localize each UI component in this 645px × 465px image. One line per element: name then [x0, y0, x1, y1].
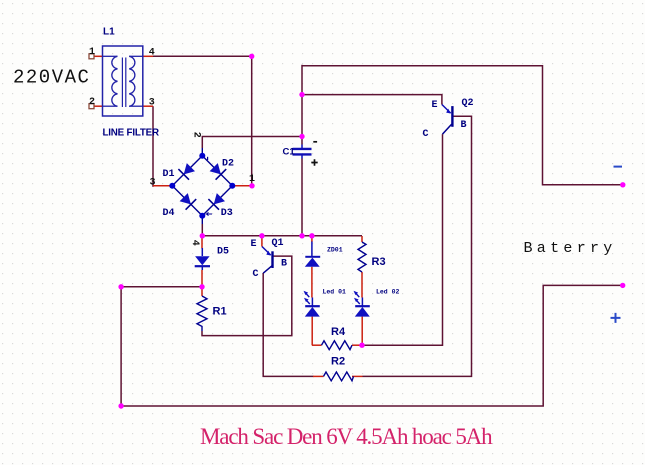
svg-text:R4: R4 [331, 326, 346, 338]
wire Led01 bottom lead [311, 317, 313, 346]
wire pin4 stub [143, 55, 153, 57]
wire R2 left lead [313, 375, 324, 377]
junction Q2 emitter branch [299, 92, 304, 97]
diode D4 [180, 193, 197, 210]
wire pin2 stub [94, 105, 103, 107]
svg-text:Baterry: Baterry [524, 240, 617, 257]
wire top right run to battery minus [302, 66, 623, 185]
wire ZD01 top lead [311, 236, 313, 242]
svg-text:C1: C1 [283, 146, 296, 157]
wire R4 left lead [312, 344, 322, 346]
wire D5 top lead [201, 236, 203, 249]
svg-text:L1: L1 [103, 27, 115, 38]
pin square 2 [89, 104, 94, 109]
svg-text:Q1: Q1 [272, 238, 284, 249]
svg-text:1: 1 [249, 174, 255, 185]
wire pin3 stub [143, 105, 153, 107]
diode D3 [208, 193, 225, 210]
svg-text:1: 1 [89, 47, 95, 58]
transistor Q2 [442, 105, 453, 135]
svg-text:D4: D4 [163, 208, 175, 219]
wire C1 vertical upper [301, 65, 303, 145]
bridge pin 2 tick mark [207, 157, 209, 160]
node bridge bottom pin 4 [199, 213, 205, 219]
bridge pin 4 arrow mark [207, 212, 213, 215]
wire ZD01 to Led01 [311, 267, 313, 298]
wire pin4 to corner [153, 55, 252, 57]
junction ZD01 on rail [309, 233, 314, 238]
resistor R4 [322, 341, 353, 350]
resistor R1 [197, 296, 207, 331]
wire bridge right stub [232, 185, 252, 187]
junction left riser bottom [118, 403, 123, 408]
junction D5 cathode node [199, 284, 204, 289]
svg-text:ZD01: ZD01 [327, 246, 343, 253]
LED Led01 [304, 291, 320, 317]
bridge rectifier arms [172, 148, 232, 224]
node bridge top pin 2 [199, 153, 205, 159]
node bridge right pin 1 [229, 183, 235, 189]
wire D5 bottom lead [201, 270, 203, 287]
diode D5 [195, 248, 210, 270]
svg-text:B: B [461, 120, 467, 131]
svg-text:D3: D3 [221, 208, 233, 219]
svg-text:3: 3 [150, 177, 156, 188]
transistor Q1 [262, 247, 273, 274]
junction Led02 R4 node [359, 343, 364, 348]
svg-text:B: B [281, 258, 287, 269]
wire R3 top lead [361, 236, 363, 242]
junction Q1 emitter on rail [259, 233, 264, 238]
junction bridge right [249, 183, 254, 188]
wire R1 top lead [201, 287, 203, 296]
svg-text:3: 3 [149, 97, 155, 108]
wire battery plus run, bottom rail, left riser [121, 285, 623, 406]
resistor R2 [324, 372, 354, 381]
capacitor C1 [293, 145, 312, 159]
wire pin1 stub [94, 55, 103, 57]
node battery plus terminal [620, 283, 625, 288]
red component stubs [94, 56, 363, 376]
wire bridge left stub [153, 185, 172, 187]
node bridge left pin 3 [169, 183, 175, 189]
wire R3 to Led02 [361, 272, 363, 298]
junction bridge bottom on rail [200, 233, 205, 238]
wire Q2 emitter run [302, 95, 442, 105]
junction top corner [249, 54, 254, 59]
main dark wires [121, 55, 623, 406]
battery minus symbol [614, 166, 623, 168]
svg-text:R1: R1 [213, 305, 227, 317]
wire pin3 down [152, 106, 154, 187]
node battery minus terminal [620, 182, 625, 187]
zener diode ZD01 [305, 242, 320, 267]
resistor R3 [358, 242, 366, 272]
junction C1 bottom on rail [299, 233, 304, 238]
wire R2 right lead [352, 375, 363, 377]
svg-text:Led 02: Led 02 [376, 288, 400, 295]
junction C1 top node [299, 134, 304, 139]
C1 minus mark [313, 141, 317, 143]
wire corner down to bridge right node [251, 55, 253, 186]
svg-text:C: C [423, 129, 429, 140]
wire R1 bottom to Q1 base riser [202, 256, 292, 336]
LED Led02 [354, 291, 370, 317]
wire Q1 collector down to R2 [263, 273, 313, 376]
pin square 1 [89, 54, 94, 59]
svg-text:Mach Sac Den 6V 4.5Ah hoac 5Ah: Mach Sac Den 6V 4.5Ah hoac 5Ah [200, 424, 493, 449]
wire bridge top to C1 node [202, 137, 302, 149]
C1 plus mark [311, 159, 317, 165]
svg-text:4: 4 [149, 48, 155, 59]
svg-text:R2: R2 [331, 355, 345, 367]
svg-text:Q2: Q2 [462, 98, 474, 109]
svg-text:2: 2 [89, 97, 95, 108]
wire Q1 emitter lead [261, 236, 263, 247]
wire R4 node to Q2 collector riser [362, 134, 443, 345]
svg-text:220VAC: 220VAC [13, 66, 90, 88]
svg-text:D2: D2 [222, 159, 234, 170]
wire Led02 bottom lead [361, 317, 363, 346]
transformer L1 line filter [103, 46, 143, 116]
battery plus symbol [611, 313, 621, 323]
svg-text:4: 4 [189, 240, 200, 246]
wire R4 right lead [352, 344, 362, 346]
diode D1 [178, 163, 195, 180]
svg-text:E: E [432, 100, 438, 111]
diode D2 [210, 163, 227, 180]
svg-text:C: C [253, 269, 259, 280]
svg-text:D1: D1 [163, 169, 175, 180]
svg-text:2: 2 [191, 132, 202, 138]
svg-text:LINE FILTER: LINE FILTER [103, 127, 160, 138]
svg-text:Led 01: Led 01 [323, 288, 347, 295]
wire R2 right to Q2 base riser [363, 116, 472, 376]
wire dc rail y=236 [202, 235, 362, 237]
svg-text:D5: D5 [217, 247, 229, 258]
wire C1 bottom to rail [301, 159, 303, 236]
wire bridge bottom stub to rail [201, 224, 203, 236]
svg-text:R3: R3 [372, 256, 386, 268]
junction left riser top [118, 284, 123, 289]
svg-text:E: E [251, 239, 257, 250]
